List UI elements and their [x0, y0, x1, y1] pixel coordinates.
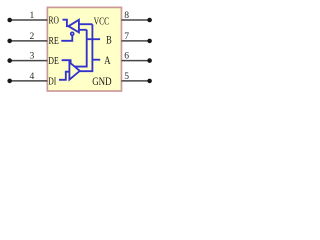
svg-text:VCC: VCC — [94, 15, 110, 27]
pin 1 terminal dot — [7, 18, 12, 23]
pin 3 wire — [10, 60, 48, 62]
pin 4 terminal dot — [7, 79, 12, 84]
svg-text:1: 1 — [30, 10, 35, 21]
pin 3 terminal dot — [7, 58, 12, 63]
wire receiver input stub upper — [79, 23, 93, 25]
IC body U1 (MAX485) — [47, 7, 121, 91]
pin 5 terminal dot — [147, 79, 152, 84]
pin 8 wire — [121, 19, 149, 21]
svg-text:DE: DE — [48, 55, 59, 67]
pin 6 wire — [121, 60, 149, 62]
svg-text:DI: DI — [48, 75, 56, 87]
svg-text:2: 2 — [30, 31, 35, 42]
svg-text:8: 8 — [124, 10, 129, 21]
wire RE lead — [61, 36, 72, 41]
pin 2 wire — [10, 40, 48, 42]
svg-text:B: B — [106, 35, 112, 47]
wire DI lead — [59, 72, 69, 80]
wire rail B net — [75, 30, 87, 67]
svg-text:5: 5 — [124, 71, 129, 82]
pin 6 terminal dot — [147, 58, 152, 63]
svg-text:RO: RO — [49, 14, 59, 26]
pin 8 terminal dot — [147, 18, 152, 23]
pin 4 wire — [10, 80, 48, 82]
receiver triangle U1a — [69, 20, 79, 33]
wire DE lead — [62, 60, 71, 64]
svg-text:4: 4 — [30, 71, 35, 82]
wire A branch — [92, 59, 100, 61]
wire rail A net — [80, 24, 93, 71]
svg-text:7: 7 — [124, 31, 129, 42]
svg-text:6: 6 — [124, 51, 129, 62]
wire RO lead — [63, 20, 69, 27]
wire B branch — [87, 38, 100, 40]
driver triangle U1b — [69, 62, 79, 79]
bubble on receiver enable — [71, 32, 74, 35]
svg-text:GND: GND — [92, 76, 111, 88]
pin 7 terminal dot — [147, 39, 152, 44]
pin 2 terminal dot — [7, 39, 12, 44]
wire receiver input stub lower — [79, 29, 87, 31]
svg-text:3: 3 — [30, 51, 35, 62]
svg-text:RE: RE — [49, 35, 60, 47]
pin 1 wire — [10, 19, 48, 21]
pin 7 wire — [121, 40, 149, 42]
svg-text:A: A — [104, 55, 111, 67]
pin 5 wire — [121, 80, 149, 82]
